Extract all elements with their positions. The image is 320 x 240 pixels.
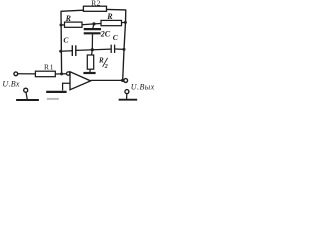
node row3 right junction [123, 48, 126, 51]
capacitor C (left of twin-T bottom arm) [72, 45, 76, 56]
node output junction [121, 79, 124, 82]
ground (R/2) [83, 72, 95, 74]
resistor R (right of twin-T top arm) [101, 20, 122, 25]
wire non-inverting input to ground [63, 83, 70, 90]
wire row3 middle [77, 49, 111, 50]
input terminal circle [14, 72, 18, 76]
svg-text:2: 2 [104, 64, 108, 70]
resistor R1 [35, 71, 55, 77]
svg-text:2C: 2C [100, 29, 111, 38]
input ground terminal circle [24, 88, 28, 92]
wire R1 to op-amp [55, 73, 66, 75]
wire row2 right stub [122, 21, 126, 23]
node row3 left junction [59, 50, 62, 53]
wire op-amp output [91, 79, 124, 81]
ground smudge artifact [47, 98, 59, 100]
resistor R/2 [87, 55, 93, 69]
node row3 middle junction [91, 48, 94, 51]
wire row3 left [61, 50, 72, 53]
label R/2 [98, 57, 108, 70]
resistor R2 [83, 6, 106, 11]
ground (output port) [119, 99, 138, 101]
op-amp U1 [70, 72, 91, 90]
ground (input port) [16, 99, 39, 101]
node row2 left junction [60, 24, 63, 27]
svg-text:C: C [113, 33, 119, 42]
svg-text:C: C [63, 36, 69, 45]
wire input ground stem [26, 92, 27, 99]
wire top-right feedback horizontal [107, 8, 127, 11]
wire R/2 lower stem [89, 69, 92, 72]
wire row2 left stub [61, 24, 65, 26]
svg-text:R2: R2 [91, 0, 101, 8]
node row2 right junction [124, 21, 127, 24]
wire row3 right stub [115, 48, 124, 50]
output terminal circle [124, 79, 128, 83]
wire row2 middle [82, 24, 101, 25]
wire input to R1 [18, 73, 36, 75]
wire right vertical (output to twin-T) [123, 10, 126, 81]
svg-text:R: R [98, 57, 104, 65]
wire top-left feedback horizontal [61, 10, 84, 11]
capacitor 2C [84, 29, 101, 33]
svg-text:R1: R1 [44, 63, 54, 72]
svg-text:R: R [106, 12, 113, 21]
wire R/2 upper stem [91, 50, 94, 55]
ground (non-inverting input) [46, 91, 66, 93]
node inverting input junction [60, 72, 63, 75]
svg-text:U.Вых: U.Вых [131, 82, 155, 91]
inversion bubble op-amp [67, 72, 70, 75]
wire left vertical (inverting input node) [60, 11, 63, 74]
node row2 middle junction [92, 22, 95, 25]
wire output ground stem [126, 94, 128, 99]
wire 2C upper stem [92, 24, 95, 28]
capacitor C (right of twin-T bottom arm) [111, 45, 114, 53]
svg-text:U.Вх: U.Вх [2, 80, 19, 89]
output ground terminal circle [125, 90, 129, 94]
resistor R (left of twin-T top arm) [65, 22, 83, 27]
wire 2C lower stem [91, 34, 93, 49]
svg-text:R: R [65, 14, 72, 23]
